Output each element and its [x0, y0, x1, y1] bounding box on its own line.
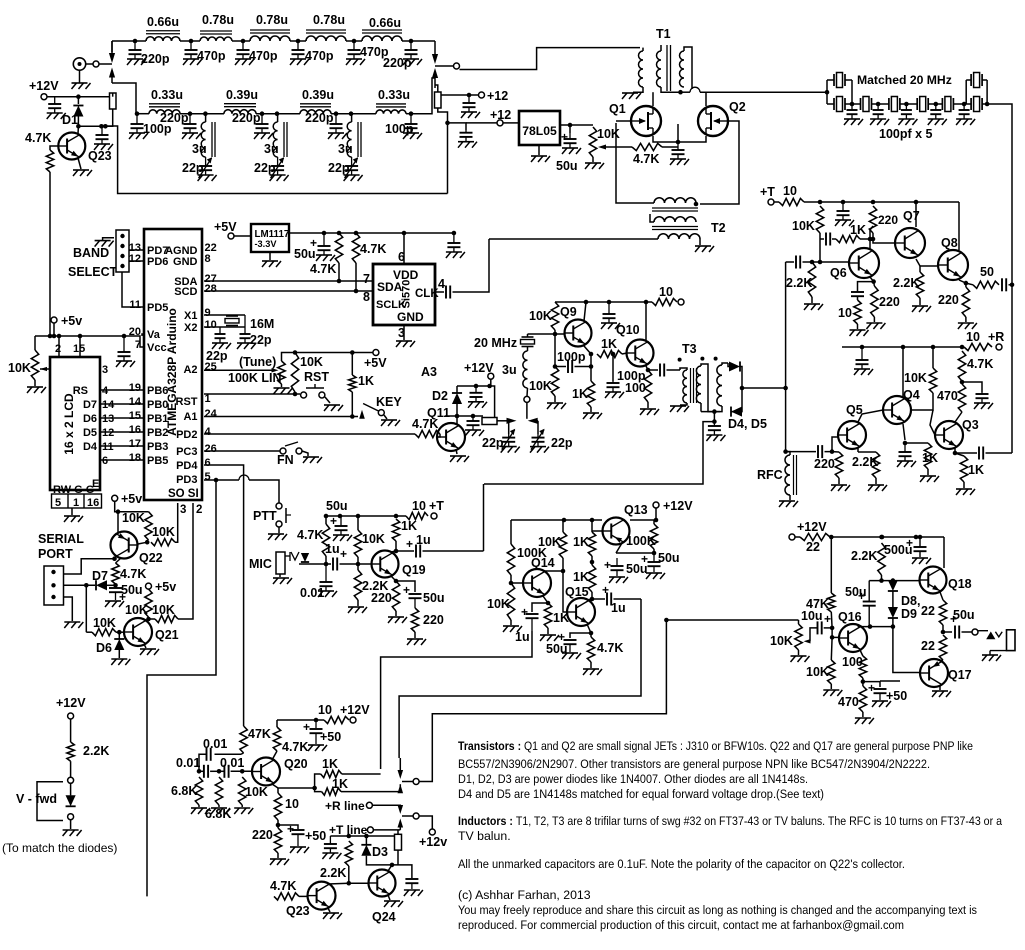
wire coax stub	[86, 63, 93, 65]
capacitor 0.1u +12b	[458, 130, 477, 148]
wire PD5 pin11	[122, 272, 144, 307]
svg-text:22: 22	[921, 604, 935, 618]
label 10 q20e	[285, 797, 299, 811]
wire LPF2 segment	[180, 113, 224, 115]
wire 220 q5 link	[832, 451, 839, 453]
svg-text:Q19: Q19	[402, 563, 426, 577]
capacitor 470p to ground #1	[183, 41, 202, 65]
transistor Q14	[523, 569, 551, 597]
wire gate vertical	[616, 123, 654, 203]
svg-text:16 x 2 LCD: 16 x 2 LCD	[62, 393, 76, 455]
capacitor 0.1u +12a	[461, 95, 480, 118]
svg-text:220: 220	[878, 213, 898, 227]
wire cap to Q5 base	[825, 437, 839, 452]
wire LCD-MCU row y=418	[100, 417, 144, 419]
wire q13e row	[616, 552, 654, 554]
wire hop PD3	[239, 475, 249, 480]
svg-text:3u: 3u	[264, 142, 279, 156]
wire D2 anode	[456, 404, 458, 416]
wire vfwd top	[70, 719, 72, 742]
svg-text:24: 24	[205, 408, 218, 420]
svg-text:1K: 1K	[850, 223, 866, 237]
svg-text:D7: D7	[92, 569, 108, 583]
svg-text:10: 10	[318, 703, 332, 717]
junction +R rail x=903	[901, 345, 906, 350]
capacitor 100pf shunt #1	[844, 104, 863, 125]
wire Q2 gate right	[700, 121, 739, 204]
inductor 3u #2	[273, 122, 277, 157]
label 10K q21c	[93, 616, 116, 630]
wire tune top	[282, 353, 373, 362]
crystal 20MHz series #3	[917, 97, 928, 112]
wire D3 stem	[365, 836, 367, 845]
svg-text:26: 26	[205, 443, 217, 455]
LCD pin 14	[102, 399, 115, 411]
wire cap to IF bus	[1009, 284, 1013, 286]
wire Q7 collector	[915, 202, 917, 227]
label D8,	[901, 594, 920, 608]
pin label PD5	[147, 302, 168, 314]
wire vfwd gnd	[70, 820, 72, 829]
resistor 50 Q8 out	[973, 281, 999, 288]
transistor Q24	[369, 870, 396, 897]
junction LPF2 node x=262	[260, 111, 265, 116]
wire T2 w1 right	[695, 203, 697, 204]
wire cap to 10	[857, 296, 859, 300]
pin label PB2	[147, 427, 168, 439]
label +12V d2	[464, 361, 494, 375]
wire Q11 collector	[456, 416, 458, 425]
pin number 8	[205, 253, 211, 265]
label Q1	[609, 102, 626, 116]
diode mic bias	[301, 553, 309, 562]
svg-text:1u: 1u	[611, 601, 626, 615]
label 10K q9a	[529, 309, 552, 323]
label 16M	[250, 317, 274, 331]
wire 1K q14e gnd	[547, 628, 549, 634]
svg-text:10u: 10u	[801, 609, 823, 623]
svg-text:220: 220	[879, 295, 900, 309]
junction q24 coll	[390, 863, 395, 868]
label 470p	[249, 49, 278, 63]
svg-text:220: 220	[371, 591, 392, 605]
svg-text:D8,: D8,	[901, 594, 920, 608]
capacitor 0.1u TX drv	[322, 836, 341, 859]
label +12V q20	[340, 703, 370, 717]
wire q13 rail	[511, 519, 602, 521]
junction q19 coll	[394, 549, 399, 554]
svg-text:+: +	[604, 558, 611, 572]
transistor Q16	[839, 624, 867, 652]
wire serial pin3 gnd	[64, 597, 73, 621]
junction q20e	[276, 823, 281, 828]
junction Q9 base	[553, 332, 558, 337]
resistor 220 q20	[274, 828, 281, 853]
junction base row 2	[240, 769, 245, 774]
svg-text:2: 2	[55, 343, 61, 355]
svg-text:+12V: +12V	[340, 703, 370, 717]
label +5v q22	[121, 492, 142, 506]
label + 50u q13a	[641, 552, 648, 566]
junction fb cap left	[553, 364, 558, 369]
wire 220 q5 gnd	[838, 478, 840, 484]
wire pot gnd	[34, 380, 36, 386]
LCD pin 6	[102, 455, 108, 467]
junction LPF2 node x=351	[349, 111, 354, 116]
wire 4.7K q15 link	[590, 633, 592, 637]
core RFC	[794, 455, 797, 495]
wire LPF2 main line	[136, 113, 149, 115]
label SDA pin	[377, 280, 403, 294]
svg-text:D6: D6	[96, 641, 112, 655]
svg-text:100: 100	[842, 655, 863, 669]
label D7	[92, 569, 108, 583]
wire +12 q13 stem	[655, 508, 657, 520]
ground 4.7K q15	[583, 669, 602, 675]
wire D6 stem	[118, 632, 120, 639]
label + 50u 3.3	[310, 236, 317, 250]
capacitor 0.1u osc rail	[601, 302, 620, 329]
wire SDA line	[204, 280, 373, 282]
capacitor 100p feedback	[568, 360, 572, 373]
wire 3u branch 2	[277, 114, 279, 122]
label 22p X1	[250, 333, 272, 347]
label Q14	[531, 556, 555, 570]
wire left pair bot L	[827, 103, 834, 105]
wire left pair top L	[827, 79, 834, 81]
capacitor 22p X2	[212, 327, 231, 349]
svg-text:2.2K: 2.2K	[320, 866, 346, 880]
wire 10K q16 gnd	[830, 684, 832, 689]
wire fb left	[820, 238, 824, 240]
wire D1 bottom	[77, 117, 79, 127]
resistor (box) TX drv	[395, 834, 402, 850]
wire q23b emitter	[328, 907, 331, 912]
display 16x2 LCD	[50, 357, 100, 490]
svg-text:4.7K: 4.7K	[120, 567, 146, 581]
label 22p X2	[206, 349, 228, 363]
junction 2.2K	[810, 260, 815, 265]
wire +R line	[372, 804, 400, 807]
junction +T rail x=873	[871, 200, 876, 205]
wire A2 tune	[204, 369, 274, 371]
resistor 1K Q4	[924, 443, 931, 469]
label 47K af	[806, 597, 829, 611]
wire RST row	[204, 393, 300, 395]
wire PD3 ctrl line	[147, 480, 216, 896]
junction q19 rail x=340	[338, 514, 343, 519]
svg-text:PB2: PB2	[147, 427, 168, 439]
svg-text:+12v: +12v	[419, 835, 447, 849]
wire 10 gnd	[857, 324, 859, 329]
wire T1 primary top	[642, 48, 644, 51]
wire filter bottom return	[106, 126, 448, 194]
label Q10	[616, 323, 640, 337]
svg-text:10K: 10K	[245, 785, 268, 799]
wire rect to arrows	[497, 420, 509, 422]
transistor Q3	[935, 421, 963, 449]
svg-text:22: 22	[921, 639, 935, 653]
wire xtal to 3u	[527, 347, 529, 351]
junction Q1Q2 source	[676, 140, 681, 145]
ground 220 q20	[270, 859, 289, 865]
pin 8	[363, 290, 370, 304]
junction shunt 2	[876, 102, 881, 107]
label +50 q16	[886, 689, 907, 703]
wire +5v stem	[53, 323, 55, 336]
svg-text:50u: 50u	[121, 583, 143, 597]
resistor 10K q20	[239, 777, 246, 805]
wire D4 out	[740, 367, 742, 389]
wire pot to LCD	[40, 368, 50, 370]
wire Q3 base	[930, 410, 935, 435]
junction base row 0	[197, 769, 202, 774]
pin band select y=246	[120, 244, 124, 248]
junction D1 top	[76, 94, 81, 99]
pin label X2	[184, 322, 197, 334]
label Q2	[729, 100, 746, 114]
wire q17 emitter	[940, 660, 943, 661]
pin label PC3	[176, 446, 197, 458]
wire 1K q3 gnd	[963, 482, 965, 488]
wire LPF1 segment 5	[402, 40, 435, 42]
wire vfwd d	[70, 783, 72, 795]
label + 1u q14	[521, 605, 528, 619]
junction T3 ct	[712, 409, 717, 414]
label FN	[277, 453, 294, 467]
pin number 26	[205, 443, 217, 455]
svg-text:PB0: PB0	[147, 399, 168, 411]
pin serial y=572	[51, 570, 55, 574]
svg-text:10: 10	[783, 184, 797, 198]
resistor 10 +T q19	[406, 512, 428, 519]
svg-text:reproduced. For commercial pro: reproduced. For commercial production of…	[458, 918, 904, 932]
svg-text:D7: D7	[83, 399, 97, 411]
wire arrow right stem	[537, 420, 539, 422]
svg-text:20 MHz: 20 MHz	[474, 336, 517, 350]
wire 1K a out	[342, 773, 381, 775]
label 4.7K	[633, 152, 659, 166]
inductor T1 secondary A	[657, 51, 662, 87]
resistor 4.7K Q11	[415, 430, 440, 437]
capacitor 220p to ground #1	[127, 41, 146, 65]
pin 4	[438, 277, 445, 291]
svg-text:12: 12	[129, 253, 141, 265]
resistor 220 q19e	[411, 608, 418, 632]
wire 0.01a left	[199, 754, 207, 771]
connector serial port	[44, 566, 64, 605]
label 10K q9b	[529, 379, 552, 393]
svg-text:50u: 50u	[546, 642, 568, 656]
junction Q6 base node	[818, 260, 823, 265]
label Q18	[948, 577, 972, 591]
label 100pf x 5	[879, 127, 933, 141]
terminal +5V key	[373, 350, 379, 356]
pin 2 LCD	[55, 343, 61, 355]
svg-text:4.7K: 4.7K	[360, 242, 386, 256]
label 220 q19	[371, 591, 392, 605]
label 4.7K	[360, 242, 386, 256]
label SERIAL	[38, 532, 84, 546]
junction T1 out	[678, 90, 683, 95]
svg-text:+: +	[406, 537, 413, 551]
label 4.7K q22	[120, 567, 146, 581]
wire 10u in	[810, 628, 818, 641]
label +T q19	[429, 499, 444, 513]
capacitor 50u q13a	[648, 553, 661, 572]
label 4.7K q23b	[270, 879, 296, 893]
terminal +12V af	[789, 534, 795, 540]
capacitor 100p Q10	[605, 381, 624, 398]
wire right pair right junction	[986, 80, 988, 104]
label + 50u	[561, 130, 568, 144]
wire ct to audio	[484, 422, 714, 484]
pin number 14	[129, 396, 142, 408]
svg-text:Q15: Q15	[565, 585, 589, 599]
svg-text:Q13: Q13	[624, 503, 648, 517]
label Si570	[401, 280, 413, 309]
junction +5v rail x=124	[122, 334, 127, 339]
svg-text:50u: 50u	[326, 499, 348, 513]
inductor T3 w1	[683, 370, 687, 403]
svg-text:+12: +12	[490, 108, 511, 122]
svg-text:+12V: +12V	[663, 499, 693, 513]
svg-text:10K: 10K	[806, 665, 829, 679]
svg-text:+12V: +12V	[464, 361, 494, 375]
label PORT	[38, 547, 73, 561]
ground 50u q22	[105, 601, 124, 607]
resistor 2.2K q19	[354, 570, 361, 600]
capacitor 50u q15	[564, 640, 577, 652]
junction q19 rail x=358	[356, 514, 361, 519]
core T2 b	[652, 227, 698, 230]
wire q23-q24	[349, 882, 369, 884]
ground 500u	[912, 558, 931, 564]
svg-text:10: 10	[285, 797, 299, 811]
regulator LM1117	[251, 224, 289, 252]
resistor 10K Q21 base	[92, 629, 116, 636]
label 2.2K q5	[852, 455, 878, 469]
wire +5v rail	[35, 336, 144, 347]
svg-text:T3: T3	[682, 342, 697, 356]
ground 220 q19	[388, 617, 407, 623]
ground 1K q4	[920, 476, 939, 482]
pin band select y=236	[120, 234, 124, 238]
label 1K q4	[922, 451, 938, 465]
wire A1 row	[204, 416, 358, 418]
capacitor 1u q15 out	[607, 593, 611, 606]
transistor Q9	[565, 320, 592, 347]
svg-text:PB5: PB5	[147, 455, 168, 467]
wire RFC to Q5 cap	[786, 451, 816, 453]
junction LPF1 node x=135	[133, 39, 138, 44]
crystal matched end right top	[971, 73, 982, 88]
junction 2.2K bot	[879, 578, 884, 583]
svg-text:SO SI: SO SI	[168, 488, 199, 500]
svg-text:D2: D2	[432, 389, 448, 403]
wire T2 w3 right	[699, 239, 701, 245]
wire q20 base row	[199, 770, 204, 772]
capacitor 220p to ground #3	[328, 114, 347, 139]
junction detector	[740, 386, 745, 391]
svg-text:A3: A3	[421, 365, 437, 379]
junction q16 coll	[868, 624, 873, 629]
wire VDD	[403, 233, 405, 264]
pin number 16	[129, 424, 141, 436]
wire d8 stem	[892, 581, 894, 582]
wire Q8 collector	[958, 202, 960, 250]
wire Q22 collector	[116, 558, 122, 563]
pin serial y=597	[51, 595, 55, 599]
label Q19	[402, 563, 426, 577]
ground 470 q16	[855, 718, 874, 724]
junction q16e	[861, 679, 866, 684]
svg-text:D4 and D5 are 1N4148s matched: D4 and D5 are 1N4148s matched for equal …	[458, 787, 824, 801]
transistor Q2	[698, 106, 728, 136]
label VDD	[393, 268, 419, 282]
wire 4.7K to D7 row	[115, 584, 117, 588]
junction RFC top	[783, 449, 788, 454]
label 22p R	[551, 436, 573, 450]
wire Q8 out	[966, 283, 973, 285]
svg-text:1u: 1u	[515, 630, 530, 644]
capacitor 100pf shunt #2	[870, 104, 889, 125]
svg-text:10K: 10K	[538, 535, 561, 549]
svg-text:1: 1	[205, 393, 211, 405]
svg-text:T1: T1	[656, 27, 671, 41]
label 4.7K q20	[282, 740, 308, 754]
junction base row 1	[217, 769, 222, 774]
wire PD3 to PTT	[249, 480, 279, 503]
label + 50u q13b	[604, 558, 611, 572]
label 100p	[385, 122, 414, 136]
svg-text:10K: 10K	[529, 379, 552, 393]
wire X1	[204, 314, 245, 316]
svg-text:+12V: +12V	[56, 696, 86, 710]
label 20 MHz	[474, 336, 517, 350]
label 4.7K	[25, 131, 51, 145]
transistor Q15	[567, 598, 595, 626]
resistor (box) Q11 out	[482, 418, 497, 425]
wire D6 gnd	[118, 650, 120, 658]
svg-text:Q9: Q9	[560, 305, 577, 319]
wire D2 top	[456, 386, 458, 393]
junction q14 emitter	[546, 601, 551, 606]
wire 1K to Q10 base	[622, 353, 627, 354]
label T1	[656, 27, 671, 41]
inductor 0.33u #1	[149, 104, 180, 114]
svg-text:15: 15	[73, 343, 85, 355]
ground tune	[274, 388, 293, 394]
label 50u q13b	[626, 562, 648, 576]
junction 78L05 out	[568, 123, 573, 128]
junction +R rail x=933	[931, 345, 936, 350]
label D5	[83, 427, 97, 439]
wire Q10 collector	[645, 302, 647, 340]
svg-text:+: +	[521, 605, 528, 619]
wire hop over	[690, 87, 700, 92]
wire +T bus	[330, 835, 394, 837]
ground 220 Q6	[866, 323, 885, 329]
wire 2.2K gnd	[811, 297, 813, 303]
svg-text:PD3: PD3	[176, 474, 197, 486]
svg-text:0.39u: 0.39u	[302, 88, 334, 102]
junction LPF1 node x=191	[189, 39, 194, 44]
terminal +T q19	[431, 513, 437, 519]
wire rst btn gnd	[325, 397, 330, 403]
svg-text:T2: T2	[711, 221, 726, 235]
arrow into RX filter (down)	[109, 53, 115, 63]
